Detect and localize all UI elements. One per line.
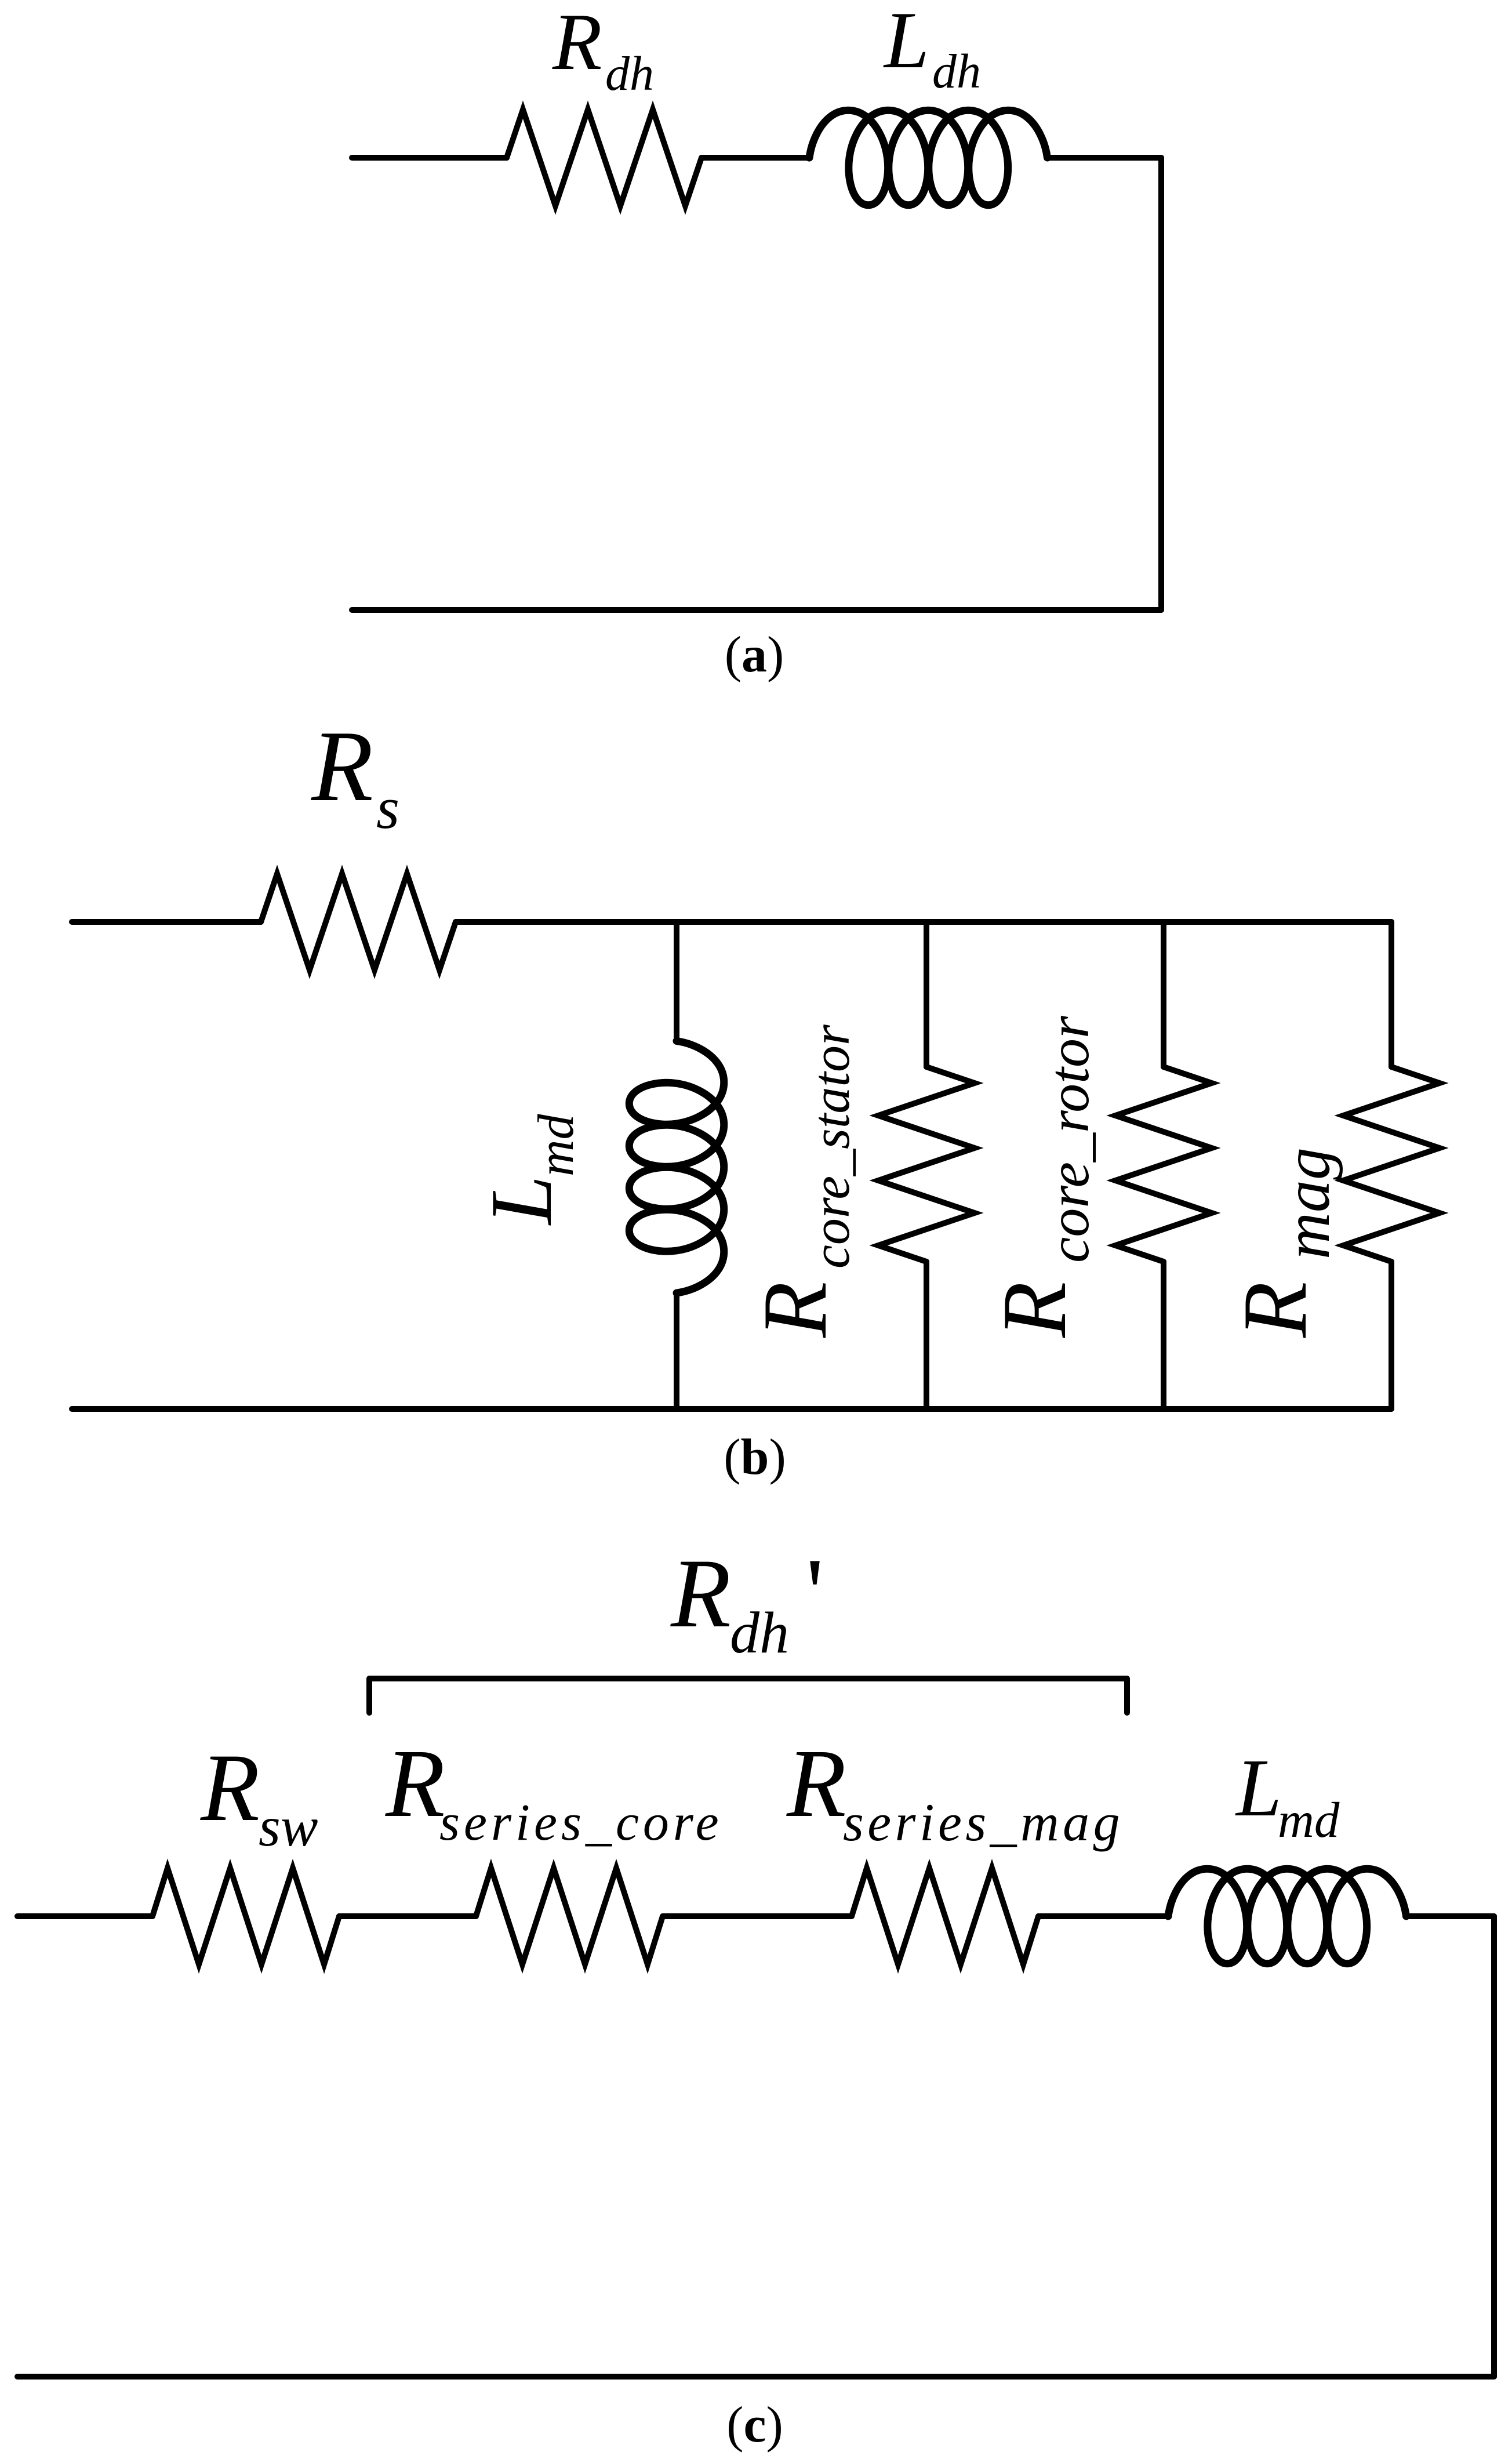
svg-text:R: R: [200, 1734, 260, 1841]
wire: (b) top bus: [456, 919, 1391, 925]
svg-text:md: md: [528, 1113, 584, 1176]
svg-text:series_mag: series_mag: [843, 1793, 1124, 1852]
svg-text:R: R: [311, 710, 373, 822]
wire: Rcore_stator bottom lead: [924, 1262, 929, 1409]
svg-text:R: R: [984, 1281, 1085, 1338]
svg-text:R: R: [385, 1730, 445, 1837]
svg-text:R: R: [786, 1730, 846, 1837]
wire: (a) top-right segment: [1047, 155, 1161, 161]
resistor Rdh: [507, 110, 702, 206]
resistor Rmag branch: top lead: [1389, 922, 1394, 1067]
resistor Rcore_rotor: [1115, 1067, 1212, 1262]
wire: (b) top-left segment: [72, 919, 261, 925]
svg-text:(c): (c): [726, 2397, 783, 2453]
svg-text:R: R: [744, 1281, 846, 1338]
wire: Lmd branch bottom lead: [674, 1293, 679, 1409]
resistor Rmag: [1343, 1067, 1440, 1262]
svg-text:dh: dh: [730, 1600, 789, 1666]
svg-text:series_core: series_core: [439, 1794, 723, 1851]
svg-text:md: md: [1278, 1792, 1340, 1848]
svg-text:': ': [806, 1538, 824, 1648]
wire: (a) bottom segment: [352, 607, 1161, 613]
wire: (c) top-right segment: [1406, 1913, 1494, 1919]
resistor Rcore_rotor branch: top lead: [1161, 922, 1166, 1067]
inductor Lmd (c): [1168, 1869, 1406, 1963]
label Rcore_rotor (rotated): [984, 1015, 1101, 1338]
svg-text:R: R: [552, 0, 602, 87]
svg-text:dh: dh: [605, 47, 654, 101]
svg-text:R: R: [670, 1539, 731, 1648]
svg-text:core_stator: core_stator: [801, 1024, 860, 1269]
resistor Rseries_mag: [852, 1868, 1038, 1964]
svg-text:(b): (b): [724, 1429, 786, 1485]
label Lmd (rotated): [472, 1113, 584, 1226]
svg-text:(a): (a): [725, 627, 784, 683]
svg-text:s: s: [376, 775, 399, 841]
svg-text:R: R: [1224, 1281, 1326, 1338]
svg-text:L: L: [883, 0, 929, 85]
bracket for Rdh-prime: [369, 1679, 1127, 1713]
svg-text:L: L: [472, 1175, 570, 1226]
wire: (b) bottom bus: [72, 1406, 1391, 1412]
inductor Ldh: [809, 110, 1048, 205]
wire: Rcore_rotor bottom lead: [1161, 1262, 1166, 1409]
resistor Rcore_stator: [878, 1067, 975, 1262]
wire: Rmag bottom lead: [1389, 1262, 1394, 1409]
svg-text:L: L: [1235, 1742, 1282, 1833]
label Rcore_stator (rotated): [744, 1024, 860, 1338]
resistor Rseries_core: [476, 1868, 663, 1964]
svg-text:mag: mag: [1271, 1147, 1343, 1259]
wire: (c) right vertical: [1491, 1916, 1497, 2377]
node: Lmd branch top lead: [674, 922, 679, 1041]
resistor Rcore_stator branch: top lead: [924, 922, 929, 1067]
wire: (c) between Rsw and Rseries_core: [339, 1913, 476, 1919]
inductor Lmd (vertical): [629, 1041, 724, 1294]
label Rmag (rotated): [1224, 1147, 1343, 1338]
wire: (c) between Rseries_mag and Lmd: [1038, 1913, 1166, 1919]
wire: (a) right vertical: [1158, 158, 1164, 610]
wire: (c) bottom segment: [17, 2374, 1494, 2380]
svg-text:sw: sw: [259, 1796, 318, 1858]
resistor Rsw: [152, 1868, 339, 1964]
wire: (c) left segment: [17, 1913, 152, 1919]
wire: (a) between Rdh and Ldh: [702, 155, 809, 161]
resistor Rs: [261, 874, 456, 970]
wire: (c) between Rseries_core and Rseries_mag: [663, 1913, 852, 1919]
wire: (a) top-left segment: [352, 155, 507, 161]
svg-text:core_rotor: core_rotor: [1037, 1015, 1101, 1263]
svg-text:dh: dh: [932, 45, 981, 99]
